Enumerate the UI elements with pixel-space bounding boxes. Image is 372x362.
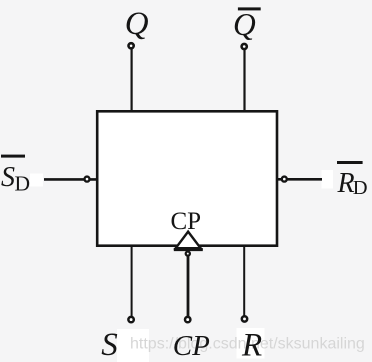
terminal S <box>128 317 133 322</box>
svg-text:D: D <box>353 177 368 199</box>
white patch right of SD label <box>30 174 43 187</box>
overline of RD <box>337 161 363 164</box>
overline of SD <box>1 155 25 158</box>
svg-text:S: S <box>1 162 15 193</box>
wire RD input <box>277 178 322 181</box>
terminal Qbar <box>242 44 247 49</box>
svg-text:S: S <box>101 327 118 362</box>
inversion bubble RD <box>282 177 287 182</box>
white patch left of RD label <box>322 170 334 189</box>
flip-flop body U1 <box>97 111 277 245</box>
svg-text:CP: CP <box>173 330 210 362</box>
wire SD input <box>44 178 97 181</box>
terminal Q <box>129 43 134 48</box>
edge-trigger triangle <box>176 232 201 249</box>
terminal R <box>242 316 247 321</box>
wire CP input <box>187 255 190 318</box>
wire R input <box>243 245 245 316</box>
overline of Qbar <box>238 7 261 10</box>
junction dot below triangle <box>186 252 190 256</box>
white patch behind R label <box>237 328 265 359</box>
wire S input <box>131 245 133 317</box>
triangle base bar <box>174 248 203 251</box>
terminal CP <box>185 317 190 322</box>
svg-text:D: D <box>15 172 31 196</box>
svg-text:Q: Q <box>125 6 149 42</box>
wire Qbar output <box>243 49 245 112</box>
svg-text:CP: CP <box>171 208 202 235</box>
svg-text:Q: Q <box>233 7 256 42</box>
white patch behind S label <box>117 329 149 362</box>
inversion bubble SD <box>85 177 90 182</box>
wire Q output <box>131 48 133 112</box>
svg-text:R: R <box>241 328 262 362</box>
